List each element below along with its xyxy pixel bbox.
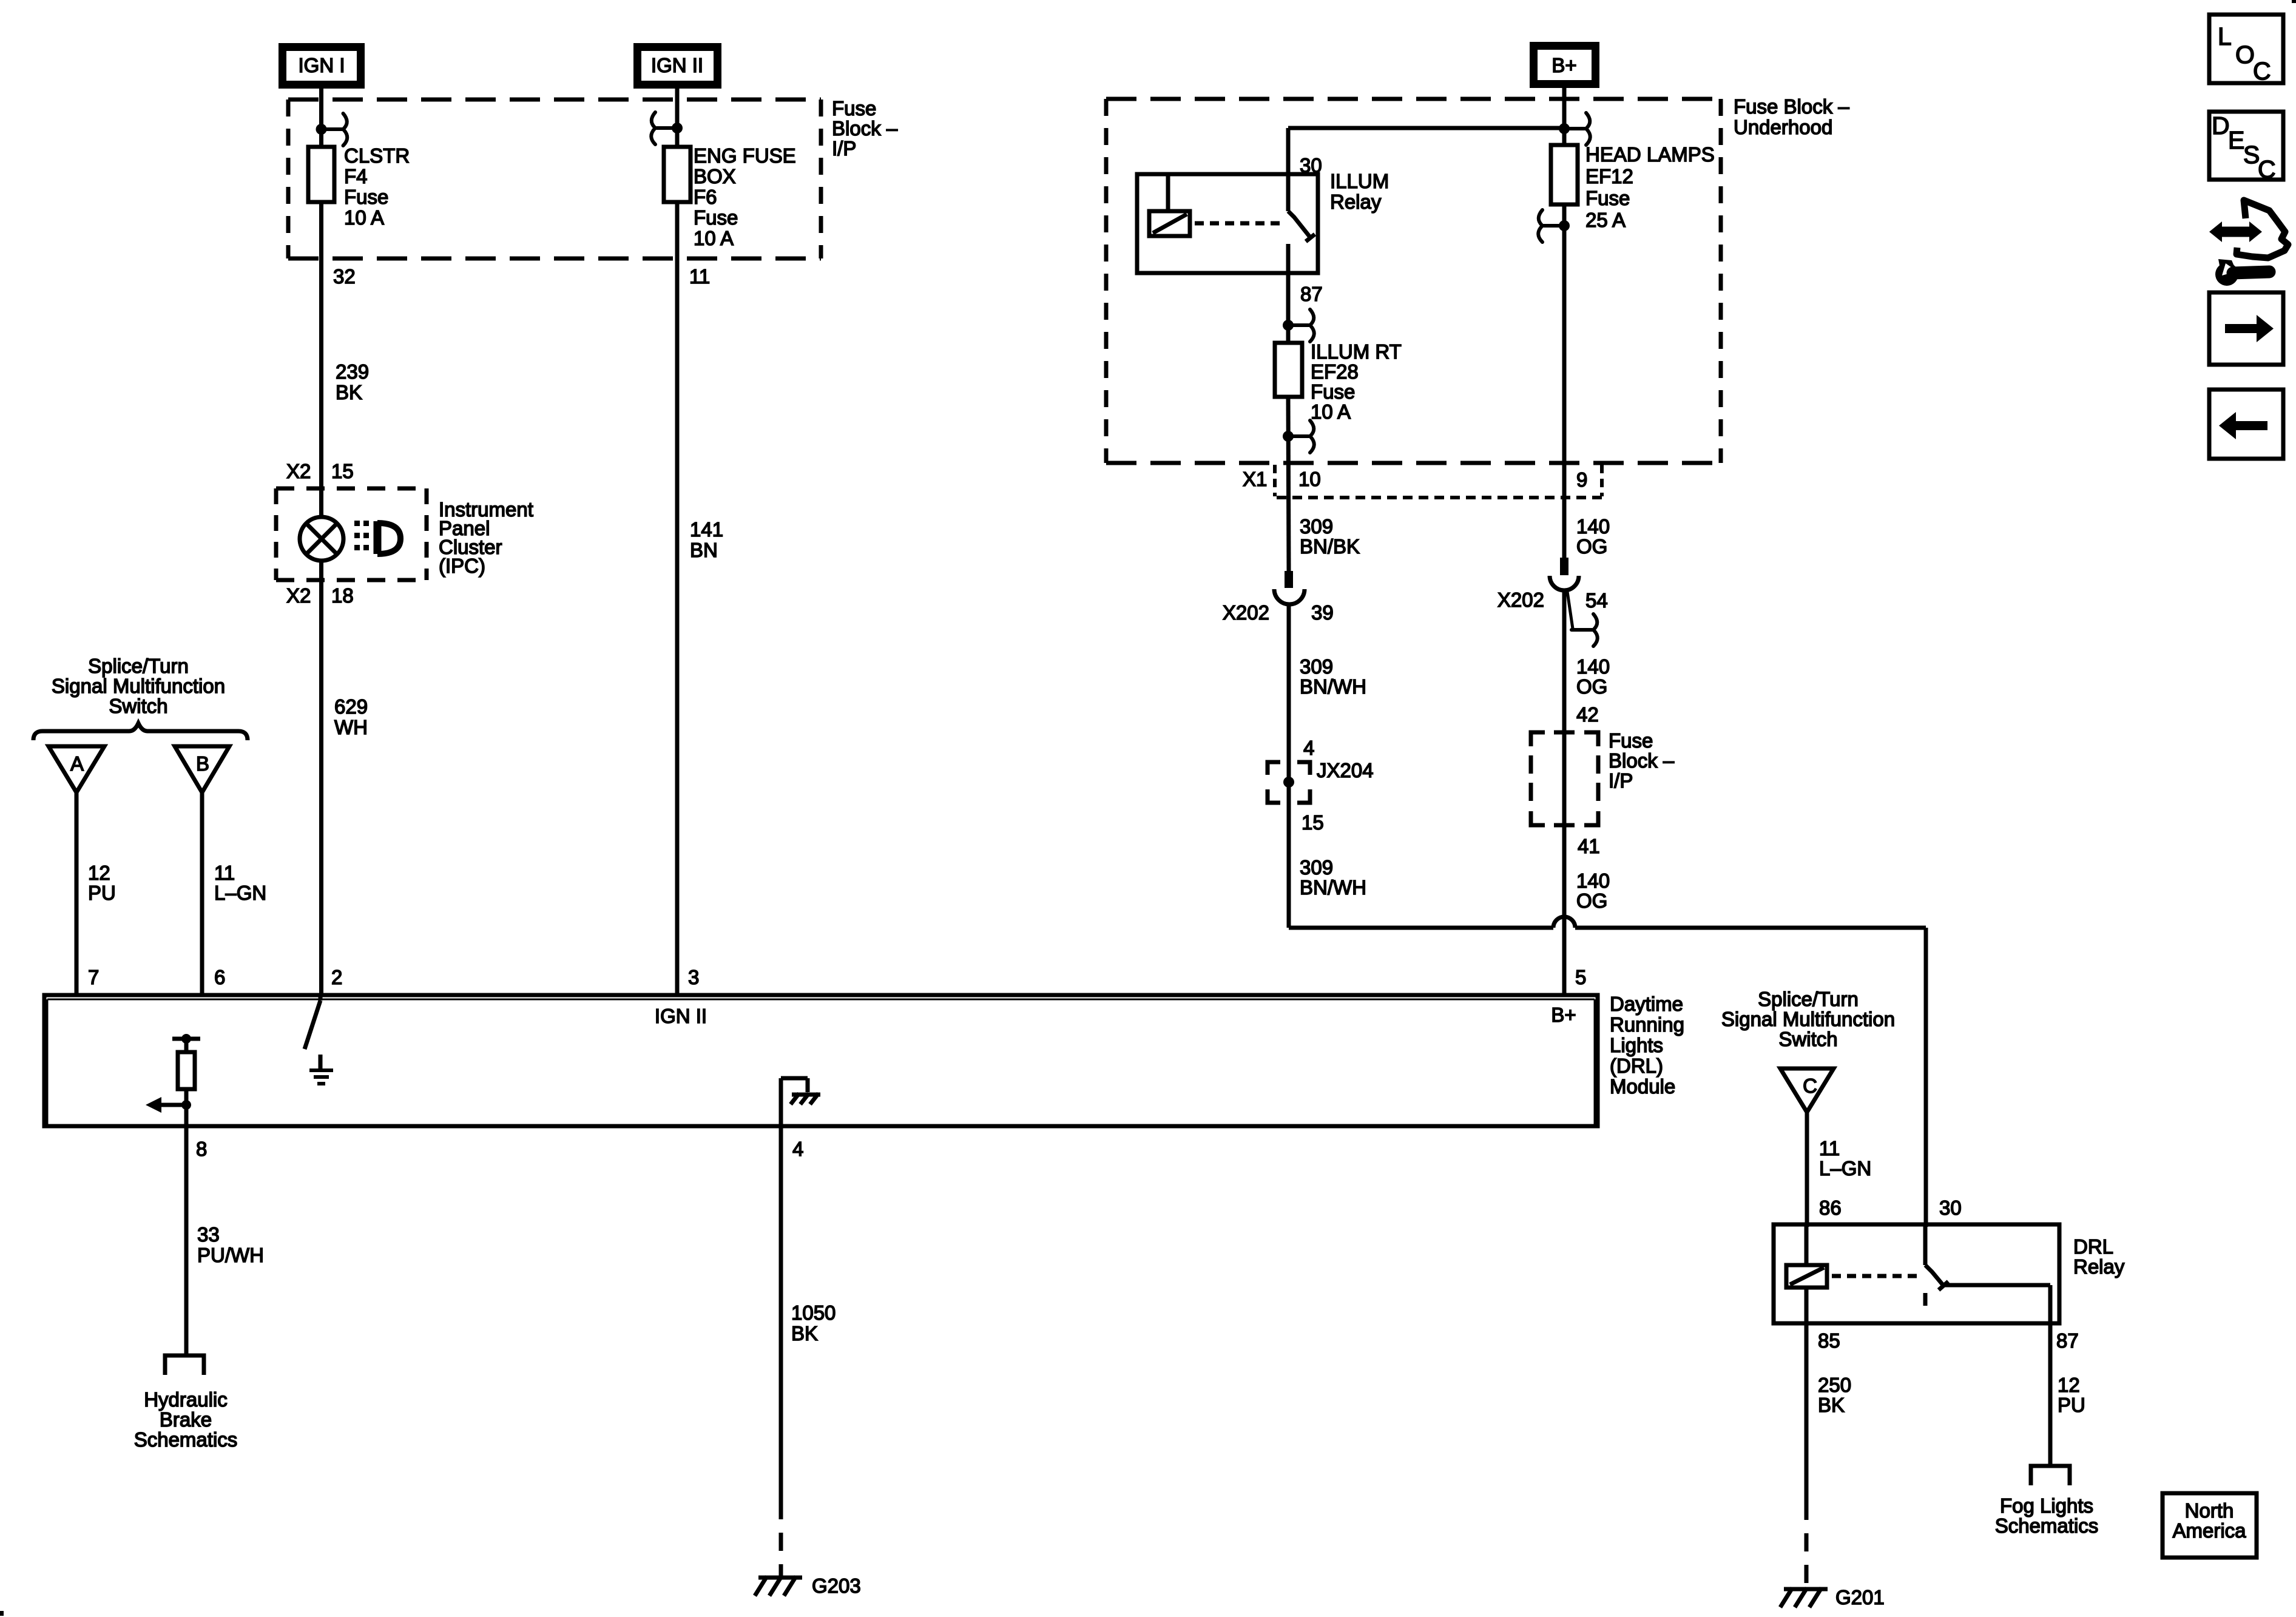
svg-text:309: 309 [1300,515,1333,538]
svg-text:BN/BK: BN/BK [1300,535,1360,558]
svg-text:Fuse: Fuse [344,186,388,208]
svg-text:L–GN: L–GN [1819,1157,1871,1180]
svg-text:OG: OG [1576,675,1607,698]
svg-text:8: 8 [196,1138,207,1160]
svg-text:EF12: EF12 [1585,165,1633,187]
svg-text:BK: BK [1818,1394,1845,1416]
svg-text:DRL: DRL [2073,1235,2113,1258]
svg-text:L–GN: L–GN [214,882,266,904]
svg-text:629: 629 [334,695,368,718]
svg-text:10: 10 [1298,468,1321,490]
svg-text:O: O [2235,41,2255,69]
svg-text:309: 309 [1300,856,1333,879]
svg-text:X2: X2 [286,584,311,607]
svg-text:Fuse: Fuse [1609,729,1653,752]
svg-text:7: 7 [88,966,99,988]
svg-text:25 A: 25 A [1585,209,1626,231]
svg-text:PU/WH: PU/WH [197,1244,264,1266]
svg-text:Relay: Relay [1330,191,1382,213]
svg-text:D: D [2212,112,2230,140]
svg-text:BN/WH: BN/WH [1300,675,1366,698]
svg-text:Fuse: Fuse [1585,187,1630,209]
svg-text:30: 30 [1939,1197,1962,1219]
svg-text:Running: Running [1610,1013,1684,1036]
svg-text:BK: BK [336,381,362,403]
svg-text:140: 140 [1576,869,1610,892]
svg-text:15: 15 [331,460,354,482]
svg-text:4: 4 [792,1138,803,1160]
svg-text:IGN II: IGN II [651,54,703,76]
svg-text:WH: WH [334,716,368,738]
svg-text:Module: Module [1610,1075,1675,1098]
svg-text:Fuse: Fuse [832,97,876,120]
svg-text:B+: B+ [1551,1004,1576,1026]
svg-text:(IPC): (IPC) [439,555,485,577]
svg-text:Fuse: Fuse [1311,380,1355,403]
svg-text:85: 85 [1818,1329,1840,1352]
svg-text:Splice/Turn: Splice/Turn [88,655,189,677]
svg-text:32: 32 [333,265,356,288]
svg-text:B+: B+ [1551,54,1576,76]
svg-text:PU: PU [88,882,116,904]
svg-text:ENG FUSE: ENG FUSE [694,144,796,167]
svg-text:33: 33 [197,1223,220,1246]
svg-text:BK: BK [791,1322,818,1345]
svg-text:15: 15 [1302,811,1324,834]
svg-text:250: 250 [1818,1374,1851,1396]
svg-text:I/P: I/P [832,137,856,160]
svg-text:Daytime: Daytime [1610,993,1683,1015]
svg-text:10 A: 10 A [694,227,734,249]
svg-text:Relay: Relay [2073,1255,2125,1278]
svg-text:X1: X1 [1243,468,1267,490]
svg-text:11: 11 [689,265,710,288]
svg-text:10 A: 10 A [1311,400,1351,423]
svg-text:ILLUM: ILLUM [1330,170,1389,192]
svg-text:141: 141 [690,518,723,541]
svg-text:America: America [2172,1519,2246,1542]
svg-text:39: 39 [1311,601,1334,624]
svg-text:1050: 1050 [791,1301,836,1324]
svg-text:10 A: 10 A [344,206,384,229]
svg-text:BOX: BOX [694,165,736,187]
svg-text:X2: X2 [286,460,311,482]
svg-text:BN/WH: BN/WH [1300,876,1366,899]
svg-text:Fuse Block –: Fuse Block – [1734,95,1849,118]
svg-text:12: 12 [88,862,110,884]
svg-text:239: 239 [336,360,369,383]
svg-text:C: C [2258,155,2276,183]
svg-text:9: 9 [1576,468,1587,491]
svg-text:Schematics: Schematics [134,1428,238,1451]
svg-text:Splice/Turn: Splice/Turn [1758,988,1859,1010]
svg-text:11: 11 [214,862,235,884]
svg-text:JX204: JX204 [1317,759,1374,781]
svg-text:Fog Lights: Fog Lights [2000,1494,2093,1517]
svg-text:2: 2 [331,966,342,988]
svg-text:86: 86 [1819,1197,1842,1219]
svg-text:(DRL): (DRL) [1610,1055,1663,1077]
svg-text:140: 140 [1576,655,1610,678]
svg-text:Block –: Block – [832,117,898,140]
svg-text:North: North [2185,1499,2234,1522]
svg-text:IGN II: IGN II [655,1005,707,1027]
svg-text:B: B [196,752,209,775]
svg-text:A: A [70,752,84,775]
svg-text:HEAD LAMPS: HEAD LAMPS [1585,143,1715,166]
svg-text:E: E [2228,126,2244,154]
svg-text:140: 140 [1576,515,1610,538]
svg-text:12: 12 [2058,1374,2080,1396]
svg-text:Signal Multifunction: Signal Multifunction [52,675,225,697]
svg-text:C: C [2253,57,2271,85]
svg-text:EF28: EF28 [1311,360,1359,383]
svg-text:I/P: I/P [1609,769,1633,792]
svg-text:CLSTR: CLSTR [344,144,410,167]
svg-text:PU: PU [2058,1394,2085,1416]
svg-text:Fuse: Fuse [694,206,738,229]
svg-text:309: 309 [1300,655,1333,678]
svg-text:11: 11 [1819,1137,1840,1160]
svg-text:Switch: Switch [1778,1028,1837,1050]
svg-text:3: 3 [688,966,699,988]
svg-text:30: 30 [1300,154,1322,177]
svg-text:X202: X202 [1497,589,1544,611]
svg-text:BN: BN [690,539,718,561]
svg-text:F6: F6 [694,186,717,208]
svg-text:G201: G201 [1835,1586,1885,1609]
svg-text:Signal Multifunction: Signal Multifunction [1721,1008,1895,1030]
svg-text:54: 54 [1585,589,1608,612]
svg-text:C: C [1803,1075,1817,1097]
svg-text:6: 6 [214,966,225,988]
svg-text:ILLUM RT: ILLUM RT [1311,340,1402,363]
svg-text:Brake: Brake [160,1408,212,1431]
svg-text:87: 87 [1300,283,1323,305]
svg-text:IGN I: IGN I [298,54,345,76]
svg-text:42: 42 [1576,703,1599,726]
svg-text:4: 4 [1303,737,1314,759]
svg-text:87: 87 [2056,1329,2079,1352]
svg-text:F4: F4 [344,165,368,187]
svg-text:5: 5 [1575,966,1586,988]
svg-text:Switch: Switch [109,695,167,717]
svg-text:Schematics: Schematics [1995,1514,2099,1537]
svg-text:OG: OG [1576,890,1607,912]
svg-text:G203: G203 [812,1575,861,1597]
svg-text:18: 18 [331,584,354,607]
svg-text:41: 41 [1578,835,1600,857]
svg-text:X202: X202 [1223,601,1269,624]
svg-text:Block –: Block – [1609,749,1675,772]
svg-text:Lights: Lights [1610,1034,1663,1056]
svg-text:Underhood: Underhood [1734,116,1832,138]
svg-text:Hydraulic: Hydraulic [144,1388,228,1411]
svg-text:OG: OG [1576,535,1607,558]
svg-text:L: L [2218,22,2232,50]
